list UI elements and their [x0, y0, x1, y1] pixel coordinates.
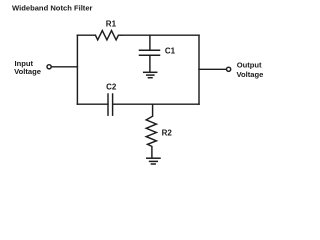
svg-text:Output: Output — [237, 61, 262, 70]
svg-text:Wideband Notch Filter: Wideband Notch Filter — [12, 4, 93, 13]
wire: right vertical — [198, 35, 200, 104]
resistor R1 — [95, 31, 121, 40]
wire: input lead — [52, 66, 78, 68]
ground (under R2) — [147, 158, 160, 164]
wire: top rail left segment — [77, 34, 95, 36]
wire: top rail right segment — [121, 34, 199, 36]
wire: bottom rail right segment (R2 junction to right vertical) — [113, 103, 199, 105]
svg-text:Voltage: Voltage — [237, 70, 264, 79]
wire: bottom rail left segment — [77, 103, 108, 105]
terminal: output open circle — [227, 67, 231, 71]
wire: left vertical (input node to top and bottom rails) — [76, 35, 78, 104]
svg-text:R1: R1 — [106, 19, 117, 28]
svg-text:C1: C1 — [165, 47, 176, 56]
wire: output lead — [199, 68, 226, 70]
capacitor C1 — [140, 35, 160, 71]
resistor R2 — [146, 104, 156, 157]
svg-text:Voltage: Voltage — [14, 67, 41, 76]
capacitor C2 — [108, 94, 113, 115]
svg-text:R2: R2 — [162, 129, 173, 138]
svg-text:C2: C2 — [106, 83, 117, 92]
ground (under C1) — [144, 72, 157, 77]
terminal: input open circle — [47, 65, 51, 69]
